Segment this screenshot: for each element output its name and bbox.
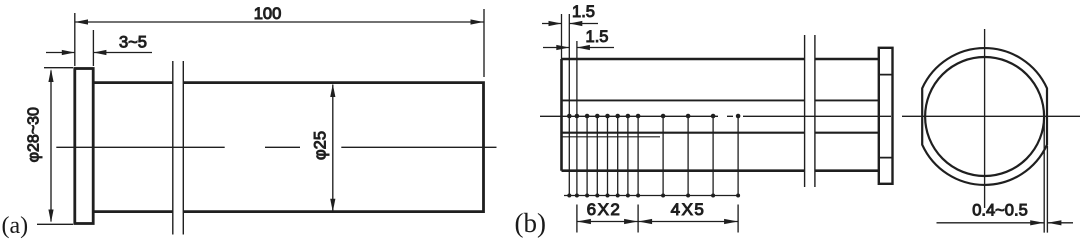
tube circle [925, 57, 1044, 176]
dimension 6x2 [577, 221, 638, 223]
svg-text:1.5: 1.5 [572, 3, 595, 21]
dimension phi28~30 [37, 68, 73, 225]
center line (a) [56, 146, 496, 148]
dimension 1.5 first [542, 23, 598, 25]
svg-text:(b): (b) [515, 208, 546, 238]
break lines (a) [173, 61, 184, 235]
center line (b) and end view [540, 115, 1080, 117]
end view vertical center line [984, 29, 986, 208]
dimension phi25 [332, 85, 334, 212]
dimension 0.4~0.5 [937, 120, 1074, 233]
dimension 100 [75, 9, 484, 77]
baseline under measurement points [564, 195, 738, 197]
measurement point extension verticals [562, 14, 739, 196]
dimension 1.5 second [543, 47, 614, 49]
dimension 3~5 [46, 30, 152, 66]
svg-text:φ25: φ25 [312, 131, 330, 160]
svg-text:4X5: 4X5 [671, 200, 706, 219]
svg-text:(a): (a) [2, 213, 29, 239]
svg-text:3~5: 3~5 [119, 34, 147, 52]
svg-text:100: 100 [254, 5, 282, 23]
dimension 4x5 [638, 221, 738, 223]
dots on baseline [567, 194, 740, 198]
break lines (b) [805, 35, 815, 187]
flange (a) [75, 69, 93, 224]
svg-text:6X2: 6X2 [587, 200, 622, 219]
shaft body (a) [93, 81, 483, 213]
svg-text:1.5: 1.5 [586, 28, 609, 46]
coating outer profile [922, 48, 1047, 185]
svg-text:0.4~0.5: 0.4~0.5 [972, 202, 1028, 220]
flange (b) [879, 48, 893, 184]
svg-text:φ28~30: φ28~30 [26, 107, 43, 162]
dimension ticks bottom (b) [577, 205, 738, 233]
measurement dots on center line [567, 114, 740, 119]
inner bore lines (b) [562, 99, 879, 101]
tube outline (b) [562, 59, 879, 171]
